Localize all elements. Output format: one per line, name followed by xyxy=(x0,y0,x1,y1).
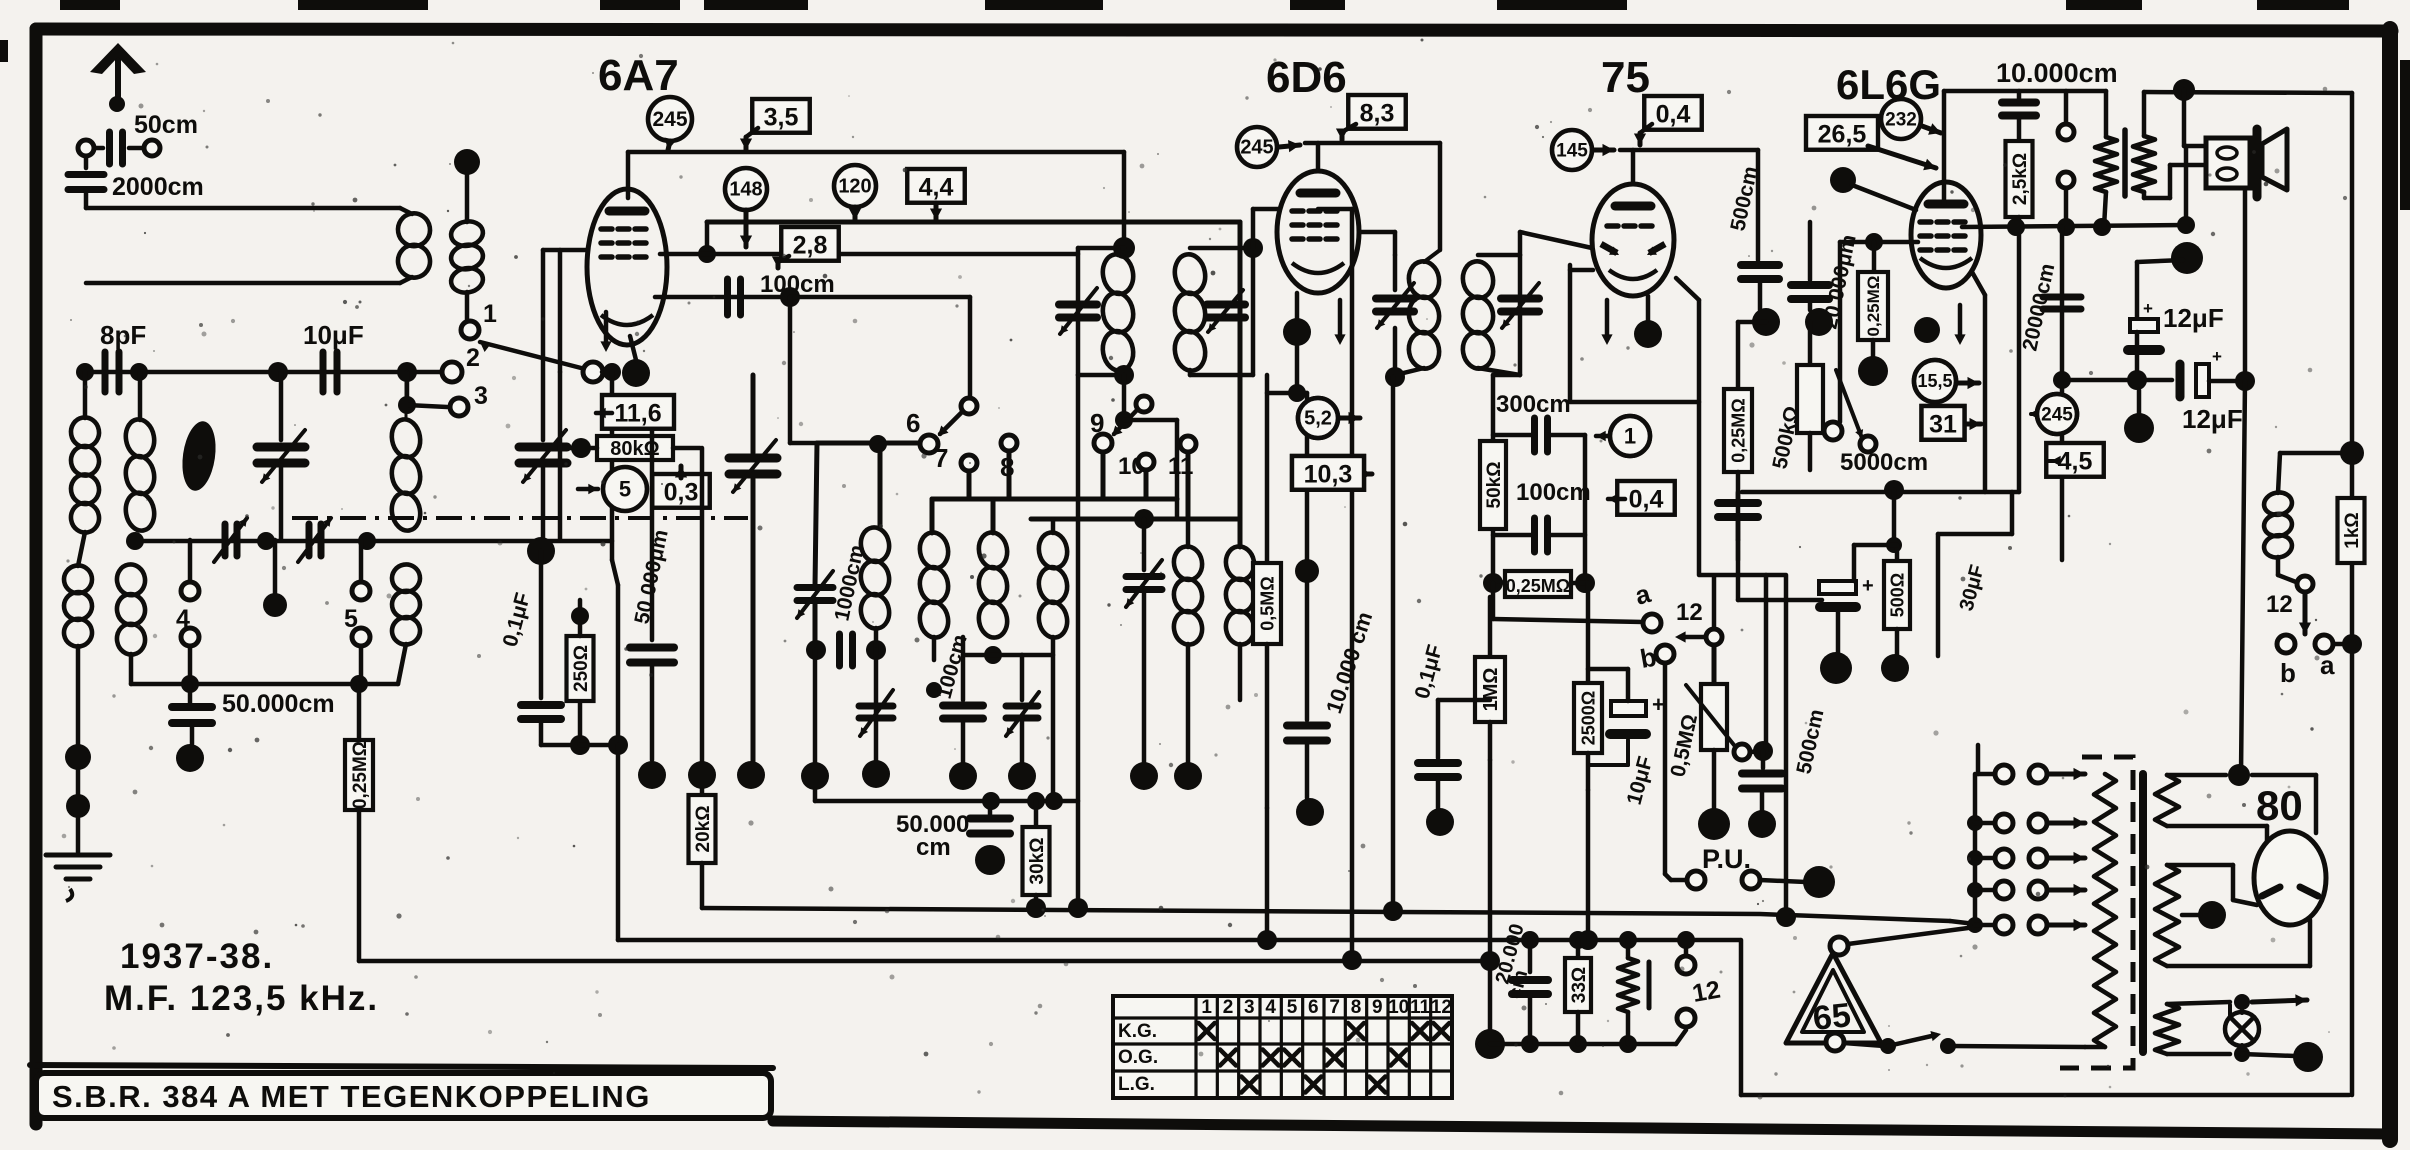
capacitor 8pF xyxy=(102,352,109,392)
coil L3 oscillator xyxy=(389,417,423,459)
svg-text:8pF: 8pF xyxy=(100,320,146,350)
relabel boxed 10,3 xyxy=(1292,456,1364,490)
svg-text:30kΩ: 30kΩ xyxy=(1027,838,1048,885)
6A7 grid4 wire left xyxy=(543,248,588,253)
circled 5 xyxy=(603,467,647,511)
IF2 secondary coil xyxy=(1460,259,1496,300)
transformer core bar xyxy=(2139,774,2147,1052)
wire IF2 sec top to 75 grid xyxy=(1518,232,1523,255)
svg-text:12μF: 12μF xyxy=(2182,404,2243,434)
svg-text:11: 11 xyxy=(1410,997,1431,1018)
terminal 12 upper xyxy=(1677,956,1695,974)
capacitor 100cm c3 xyxy=(961,637,966,700)
arm 12 top switch xyxy=(1706,629,1722,645)
svg-text:10.000cm: 10.000cm xyxy=(1996,58,2118,88)
hum potentiometer zigzag xyxy=(1626,940,1631,958)
6L6G screen line xyxy=(1962,225,2186,227)
svg-text:12: 12 xyxy=(1676,599,1703,626)
svg-text:5000cm: 5000cm xyxy=(1840,449,1928,476)
big dots c2 c3 xyxy=(737,761,765,789)
svg-text:145: 145 xyxy=(1556,140,1588,161)
coil antenna primary xyxy=(400,208,412,214)
junction dot 10000cm branch xyxy=(1295,559,1319,583)
svg-text:12: 12 xyxy=(1431,997,1452,1018)
variable capacitor oscillator padder xyxy=(751,375,756,453)
IF2 secondary rail xyxy=(1518,255,1523,375)
big dot c6 xyxy=(1186,644,1191,762)
output transformer primary zigzag xyxy=(2095,137,2117,192)
output transformer primary bottom xyxy=(2104,192,2106,227)
svg-text:3: 3 xyxy=(474,382,488,410)
boxed 26,5 xyxy=(1806,116,1878,150)
svg-text:9: 9 xyxy=(1372,997,1383,1018)
svg-text:1kΩ: 1kΩ xyxy=(2342,512,2363,548)
resistor 33Ω xyxy=(1576,940,1581,958)
svg-text:0,3: 0,3 xyxy=(664,478,699,506)
dot below filter xyxy=(2124,413,2154,443)
svg-text:1937-38.: 1937-38. xyxy=(120,937,274,976)
svg-text:500Ω: 500Ω xyxy=(1887,573,1907,617)
variable capacitor oscillator section xyxy=(519,443,567,452)
6A7 filament arrow xyxy=(604,312,609,346)
trimmer c4 xyxy=(1006,703,1038,710)
svg-text:245: 245 xyxy=(652,108,687,131)
frame bottom-left segment above title xyxy=(30,1065,773,1068)
svg-text:0,25MΩ: 0,25MΩ xyxy=(1506,576,1570,596)
wire y492 cathode node xyxy=(1742,490,2019,495)
resistor 30kΩ xyxy=(1034,801,1039,827)
svg-text:3,5: 3,5 xyxy=(764,103,799,131)
junction dot antenna secondary xyxy=(454,149,480,175)
svg-text:232: 232 xyxy=(1885,109,1917,130)
IF1 secondary trimmer xyxy=(1207,301,1245,309)
75 filament arrow xyxy=(1605,300,1610,339)
wire secondary top to junction xyxy=(465,162,470,222)
coil right feedback xyxy=(2280,451,2349,456)
6D6 filament arrow xyxy=(1338,300,1343,339)
6D6 cathode dot xyxy=(1283,318,1311,346)
HT centre tap dot xyxy=(2198,901,2226,929)
staircase wire xyxy=(2010,492,2015,534)
IF1 secondary coil xyxy=(1172,252,1208,296)
capacitor 10.000cm xyxy=(2002,99,2036,107)
wire pivot rail down xyxy=(610,372,615,560)
relabel circled 5,2 xyxy=(1298,398,1338,438)
PU wire left to b xyxy=(1671,878,1687,883)
capacitor 20000cm 6L6G xyxy=(2060,227,2065,560)
mains switch xyxy=(1826,1033,1844,1051)
svg-text:26,5: 26,5 xyxy=(1818,120,1867,148)
svg-text:2: 2 xyxy=(1223,997,1234,1018)
coil bank c2 xyxy=(917,530,951,570)
coil antenna secondary xyxy=(449,219,485,248)
triangle 65 xyxy=(1786,953,1881,1043)
filter wire y380 xyxy=(2062,378,2172,383)
big dot osc grid bottom xyxy=(527,537,555,565)
terminal 2 xyxy=(397,362,417,382)
svg-text:0,4: 0,4 xyxy=(1629,485,1664,513)
big dot 20k top xyxy=(688,761,716,789)
wire left rail down xyxy=(83,372,88,418)
svg-text:245: 245 xyxy=(2041,404,2073,425)
IF2 bottom dot xyxy=(1385,367,1405,387)
wire 500cm column xyxy=(1756,150,1761,260)
circled 15,5 xyxy=(1914,360,1956,402)
boxed 2,8 xyxy=(781,227,839,261)
svg-text:20kΩ: 20kΩ xyxy=(693,806,714,853)
feedback terminals xyxy=(2058,124,2074,140)
right rail wire xyxy=(2350,93,2355,1095)
resistor 2,5kΩ xyxy=(2017,116,2022,141)
svg-text:4,4: 4,4 xyxy=(919,173,954,201)
wire horizontal y519 to coils xyxy=(1031,517,1240,522)
IF1 secondary rail xyxy=(1251,248,1256,375)
svg-text:+: + xyxy=(2143,299,2153,318)
junction dots bus2 mid xyxy=(1257,930,1277,950)
variable capacitor main tuning 1 xyxy=(279,372,284,440)
svg-text:2000cm: 2000cm xyxy=(112,173,204,201)
heater winding xyxy=(2155,1004,2179,1054)
IF1 primary rail xyxy=(1076,248,1081,375)
speaker lower lead xyxy=(2243,188,2248,381)
svg-text:a: a xyxy=(2320,650,2335,680)
tube 80 xyxy=(2254,831,2326,925)
tube 6A7 xyxy=(587,189,667,345)
speaker feed wires xyxy=(2182,90,2187,146)
B plus line down to rectifier xyxy=(2241,381,2245,775)
svg-text:K.G.: K.G. xyxy=(1118,1021,1157,1042)
terminal above triangle xyxy=(1830,937,1848,955)
wire osc anode x560 top xyxy=(558,250,563,372)
svg-text:120: 120 xyxy=(838,176,871,198)
wire down x790 to switch xyxy=(788,297,793,443)
svg-text:2,8: 2,8 xyxy=(793,231,828,259)
wire C y254 xyxy=(660,252,1078,257)
scan artifacts top edge xyxy=(60,0,120,10)
junction dot below 50000cm xyxy=(190,723,195,744)
75 grid box wire xyxy=(1570,268,1593,273)
svg-text:15,5: 15,5 xyxy=(1917,371,1952,391)
terminals b a right xyxy=(2277,635,2295,653)
svg-text:M.F. 123,5 kHz.: M.F. 123,5 kHz. xyxy=(104,979,379,1018)
junction dots bus2 right group xyxy=(1521,931,1539,949)
inner bottom return wire xyxy=(1739,940,1744,1095)
coil L3b xyxy=(390,562,422,594)
switch arm 6 xyxy=(961,398,977,414)
coil L2a RF secondary xyxy=(123,417,157,459)
long vertical right of 6D6 xyxy=(1350,209,1355,960)
wire grid line y297 xyxy=(655,295,790,300)
output transformer core xyxy=(2122,130,2128,196)
B plus dot to electrolytic xyxy=(2137,260,2183,262)
resistor 500Ω cathode xyxy=(1895,545,1900,561)
capacitor 300cm xyxy=(1531,418,1538,452)
coil bank c6 xyxy=(1223,544,1256,582)
resistor 0.25MΩ AVC xyxy=(357,684,362,740)
tap dots xyxy=(1967,815,1983,831)
6L6G cathode dot xyxy=(1914,317,1940,343)
resistor 2500Ω xyxy=(1586,583,1591,683)
6D6 screen wire xyxy=(1359,230,1395,235)
wire to ground xyxy=(76,646,81,748)
75 plate wire xyxy=(1631,150,1636,184)
terminal 12 lower xyxy=(1677,1009,1695,1027)
relabel circled 1 xyxy=(1610,416,1650,456)
svg-text:5,2: 5,2 xyxy=(1304,408,1332,430)
wires c1 c2 bottom to dots xyxy=(813,650,818,762)
ground xyxy=(76,818,81,852)
svg-text:8,3: 8,3 xyxy=(1360,99,1395,127)
svg-text:12: 12 xyxy=(1690,976,1722,1008)
trimmer below cap c1 xyxy=(874,690,878,700)
speaker driver xyxy=(2206,138,2250,188)
svg-text:245: 245 xyxy=(1240,137,1273,159)
relabel circled 245 6L6G xyxy=(2037,394,2077,434)
terminal 1 xyxy=(465,292,470,320)
svg-text:2500Ω: 2500Ω xyxy=(1578,691,1598,745)
tube 6D6 xyxy=(1277,171,1359,293)
big dot 50000pm bottom xyxy=(638,761,666,789)
vertical IF2 return xyxy=(1391,377,1396,911)
wire 0,25MΩ af bottom xyxy=(1736,540,1741,560)
resistor 1MΩ xyxy=(1488,597,1493,657)
wire antenna coil primary xyxy=(84,190,89,208)
capacitor below c1 xyxy=(806,640,826,660)
resistor 0,25MΩ af xyxy=(1736,322,1741,389)
svg-text:7: 7 xyxy=(1329,997,1340,1018)
title box S.B.R. 384 A MET TEGENKOPPELING xyxy=(36,1073,771,1118)
capacitor 50000pm cathode xyxy=(650,430,655,640)
junction dot cathode bottom xyxy=(570,735,590,755)
resistor 20kΩ xyxy=(700,448,705,795)
speaker cone xyxy=(2262,129,2287,190)
svg-text:5: 5 xyxy=(619,476,631,501)
junction dot 790,297 xyxy=(780,287,800,307)
svg-text:1: 1 xyxy=(1624,423,1636,448)
wire 1MΩ bottom to bus xyxy=(1488,760,1493,961)
junction dot grid loop to bus xyxy=(1776,907,1796,927)
svg-text:33Ω: 33Ω xyxy=(1569,967,1590,1003)
circled 145 xyxy=(1552,130,1592,170)
capacitor 10μF xyxy=(320,352,327,392)
transformer core dashes xyxy=(2060,757,2133,1068)
svg-text:12: 12 xyxy=(2266,591,2293,618)
HT winding lower xyxy=(2155,865,2179,966)
resistor 80kΩ xyxy=(597,436,673,460)
circled 245 6L6G xyxy=(2037,394,2077,434)
capacitor 20000cm mains xyxy=(1528,940,1533,972)
bus3 corner up x1490 xyxy=(1488,961,1493,1044)
svg-text:10,3: 10,3 xyxy=(1304,460,1353,488)
svg-text:0,25MΩ: 0,25MΩ xyxy=(1864,276,1883,337)
mains wire to switch xyxy=(1951,1046,2085,1047)
capacitor 50cm xyxy=(78,140,94,156)
coil L2b xyxy=(115,562,148,597)
junction dot bus3 x1352 xyxy=(1342,950,1362,970)
wire a-b selector xyxy=(1491,583,1496,619)
svg-text:250Ω: 250Ω xyxy=(571,645,592,692)
IF2 trimmer left xyxy=(1393,255,1398,290)
wire A plate supply 6A7 xyxy=(628,150,1124,155)
transformer tap bus xyxy=(1973,774,1978,925)
svg-text:0,5MΩ: 0,5MΩ xyxy=(1257,576,1277,630)
IF1 bottom dot xyxy=(1114,365,1134,385)
wire c6 bottom corner xyxy=(1239,699,1242,702)
IF1 primary trimmer xyxy=(1059,301,1097,309)
circled 120 xyxy=(834,165,876,207)
pilot lamp xyxy=(2225,1012,2259,1046)
switch arm band selector xyxy=(480,342,585,369)
svg-text:50kΩ: 50kΩ xyxy=(1484,462,1505,509)
wire contact 6 lead xyxy=(817,441,919,446)
svg-text:b: b xyxy=(2280,658,2296,688)
svg-text:2: 2 xyxy=(466,344,480,372)
wire wiper rail up xyxy=(1764,575,1769,751)
wire 2500 bottom to bus xyxy=(1586,790,1591,940)
terminal pair 4 xyxy=(188,540,193,580)
svg-text:6A7: 6A7 xyxy=(598,51,679,100)
band switch table xyxy=(1113,996,1452,1098)
paper noise xyxy=(809,198,813,202)
capacitor 5000cm tail xyxy=(1736,492,1741,500)
IF1 primary coil xyxy=(1100,252,1136,296)
vertical x1585 det xyxy=(1583,435,1588,583)
capacitor 2000cm xyxy=(84,156,89,168)
junction dot left of 10μF xyxy=(268,362,288,382)
wire IF1 sec to 6D6 grid xyxy=(1251,209,1256,248)
svg-text:0,25MΩ: 0,25MΩ xyxy=(350,741,371,809)
svg-text:3: 3 xyxy=(1244,997,1255,1018)
svg-text:50cm: 50cm xyxy=(134,111,198,139)
svg-text:10: 10 xyxy=(1388,997,1409,1018)
circled 232 xyxy=(1881,99,1921,139)
svg-text:300cm: 300cm xyxy=(1496,391,1571,418)
output transformer secondary zigzag xyxy=(2133,136,2155,192)
svg-text:1MΩ: 1MΩ xyxy=(1480,668,1502,712)
svg-text:6: 6 xyxy=(906,408,920,438)
boxed 0,4 top xyxy=(1644,96,1702,130)
wire det rail x1493 xyxy=(1491,375,1496,580)
switch arm 9 xyxy=(1136,396,1152,412)
wire x1078 to bus xyxy=(1076,375,1081,908)
6D6 plate wire xyxy=(1316,143,1321,171)
plate line right segment xyxy=(2144,92,2352,93)
trimmer row wire y541 xyxy=(135,539,612,544)
capacitor 0,1μF det xyxy=(1438,698,1490,703)
6L6G filament lead xyxy=(1972,272,1985,295)
circled 148 xyxy=(725,168,767,210)
tap terminals xyxy=(1995,765,2013,783)
boxed 10,3 xyxy=(1292,456,1364,490)
primary winding zigzag xyxy=(2094,774,2116,1047)
circled 245 6A7 xyxy=(648,97,692,141)
HT winding upper xyxy=(2155,775,2179,826)
speaker bar xyxy=(2253,129,2262,197)
junction dot 0,25MΩ top xyxy=(1738,320,1766,325)
wire down x970 to arm6 xyxy=(968,297,973,398)
junction dot above ground xyxy=(65,744,91,770)
capacitor 10000cm xyxy=(1305,393,1310,720)
wire L1a to L1b xyxy=(78,532,85,566)
relabel boxed 31 xyxy=(1922,406,1965,440)
boxed 31 xyxy=(1922,406,1965,440)
coil bank c3 xyxy=(976,530,1010,570)
big dots coil bank bottom xyxy=(801,762,829,790)
svg-text:L.G.: L.G. xyxy=(1118,1074,1155,1095)
trimmer capacitor B xyxy=(306,524,313,556)
wire node y372 xyxy=(90,370,443,375)
trimmer c5 bank2 xyxy=(1126,573,1162,580)
svg-text:1: 1 xyxy=(483,300,497,328)
capacitor 100cm grid xyxy=(724,279,731,315)
capacitor 500cm xyxy=(1741,261,1779,269)
6A7 anode lead xyxy=(626,152,631,198)
trimmer capacitor A xyxy=(222,524,229,556)
svg-text:cm: cm xyxy=(916,834,951,861)
tube 75 xyxy=(1592,184,1674,296)
6L6G plate lead xyxy=(1942,91,1947,204)
circled 5,2 xyxy=(1298,398,1338,438)
boxed 8,3 xyxy=(1348,95,1406,129)
svg-text:80: 80 xyxy=(2256,782,2303,829)
capacitor 0,1μF cathode xyxy=(539,551,544,698)
IF2 secondary trimmer xyxy=(1501,295,1539,303)
svg-text:1: 1 xyxy=(1201,997,1212,1018)
coil L1a RF primary xyxy=(69,415,102,449)
circled 1 xyxy=(1610,416,1650,456)
tube 6L6G xyxy=(1911,182,1981,288)
relabel circled 15,5 xyxy=(1914,360,1956,402)
resistor 0,25MΩ 6L6G grid xyxy=(1840,240,1918,245)
svg-text:31: 31 xyxy=(1929,410,1957,438)
boxed 0,4 det xyxy=(1617,481,1675,515)
boxed 11,6 xyxy=(602,395,674,429)
circled 245 6D6 xyxy=(1237,127,1277,167)
75 cathode dot xyxy=(1634,320,1662,348)
junction dots bus y684 xyxy=(181,675,199,693)
terminal 3 xyxy=(405,372,410,405)
big dot mains left xyxy=(1475,1029,1505,1059)
junction dots 8pF xyxy=(76,363,94,381)
svg-text:2,5kΩ: 2,5kΩ xyxy=(2010,153,2031,205)
big dot band core xyxy=(263,593,287,617)
junction dot c3 c4 y655 xyxy=(984,646,1002,664)
junction dot 2 above ground xyxy=(76,770,81,795)
capacitor 50.000cm xyxy=(188,684,193,703)
coil L1b xyxy=(62,563,94,595)
boxed 4,4 xyxy=(907,169,965,203)
svg-text:10μF: 10μF xyxy=(303,320,364,350)
mains run y1044 xyxy=(1490,1042,1676,1047)
wire 0.25MΩ to bus xyxy=(357,810,362,961)
wire grid rail x140 down xyxy=(138,372,143,420)
svg-text:6: 6 xyxy=(1308,997,1319,1018)
6L6G grid dot xyxy=(1830,167,1856,193)
svg-text:5: 5 xyxy=(1287,997,1298,1018)
IF2 primary coil xyxy=(1406,259,1442,300)
svg-text:6D6: 6D6 xyxy=(1266,53,1347,102)
svg-text:12μF: 12μF xyxy=(2163,303,2224,333)
svg-text:0,25MΩ: 0,25MΩ xyxy=(1728,398,1748,462)
coil bank c1 xyxy=(858,525,892,564)
svg-text:100cm: 100cm xyxy=(1516,479,1591,506)
wire cathode node xyxy=(541,743,580,748)
antenna xyxy=(115,52,121,108)
svg-text:50.000cm: 50.000cm xyxy=(222,690,335,718)
boxed 3,5 xyxy=(752,99,810,133)
svg-text:S.B.R. 384 A MET TEGENKOPP: S.B.R. 384 A MET TEGENKOPPELING xyxy=(52,1079,651,1114)
svg-text:+: + xyxy=(2212,347,2222,366)
